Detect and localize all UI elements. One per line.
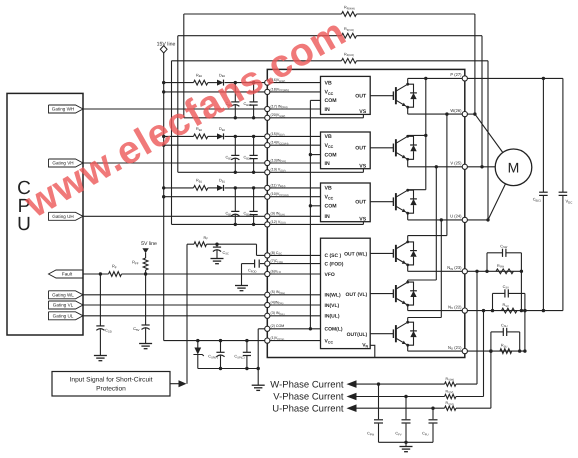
wire P rail to DC link (465, 77, 563, 79)
wire Q3 emitter to U row (407, 213, 409, 220)
wire rail1 right vertical to W node (474, 14, 476, 114)
wire collector bus vertical (425, 78, 427, 189)
pin N right (462, 349, 467, 354)
diode DB3 (217, 80, 224, 86)
wire rail2 left vertical (177, 36, 179, 173)
svg-text:IN(UL): IN(UL) (325, 314, 340, 320)
wire U sense vertical (490, 351, 492, 408)
wire Q4 collector rail to W node (407, 236, 409, 242)
wire U-Phase Current line (356, 407, 445, 409)
svg-text:C (SC ): C (SC ) (325, 253, 342, 259)
svg-text:Gating UL: Gating UL (53, 314, 74, 319)
junction CFV tap (404, 395, 407, 398)
capacitor CFU (432, 408, 434, 419)
wire V sense vertical (483, 311, 485, 397)
svg-text:NW (23): NW (23) (447, 265, 462, 271)
wire 15V to Vcc row 3 (164, 91, 265, 93)
pin (4)IN(VL) (265, 302, 270, 307)
svg-text:VS: VS (359, 109, 366, 115)
pin (2) COM (265, 326, 270, 331)
svg-text:U: U (17, 214, 31, 235)
resistor RF(UH) (342, 58, 357, 63)
wire shunt V to NU rail (524, 311, 526, 352)
junction 5V pull-up to fault line (144, 272, 147, 275)
wire VS stub V (362, 169, 364, 173)
capacitor CFV (405, 397, 407, 420)
svg-text:COM: COM (325, 204, 337, 210)
node Gating UH (49, 212, 84, 220)
svg-text:OUT(UL): OUT(UL) (347, 332, 368, 338)
wire V node to motor (465, 166, 495, 168)
pin N right (462, 269, 467, 274)
wire pin stub (267, 315, 320, 317)
capacitor C5V (142, 324, 150, 326)
resistor RSU (500, 349, 512, 354)
wire pin stub (267, 82, 320, 84)
wire input arrow to SC vertical (170, 383, 179, 385)
node Gating WL (49, 291, 84, 299)
junction CSC (215, 243, 218, 246)
wire pin stub (267, 91, 320, 93)
wire gate drive to Q3 (370, 201, 393, 203)
resistor RV(U) (445, 406, 457, 410)
transistor Q6 (IGBT) (392, 329, 394, 338)
diode DQ1 (freewheel) (408, 84, 414, 93)
svg-text:IN: IN (325, 214, 330, 220)
wire pin stub (267, 294, 320, 296)
wire shunt W to NV rail (520, 271, 522, 310)
wire rail2 right vertical to V node (481, 36, 483, 167)
wire Gating VH to IN(VH) pin (13) (83, 162, 265, 164)
capacitor CSW (487, 252, 503, 254)
junction U node VS (486, 218, 489, 221)
wire SC-input vertical (186, 244, 188, 384)
wire gate drive to Q2 (370, 147, 393, 149)
wire Q5 emitter to NV row (407, 305, 409, 311)
svg-text:IN(VL): IN(VL) (325, 303, 340, 309)
svg-text:VB: VB (325, 134, 332, 140)
svg-text:VS: VS (359, 163, 366, 169)
wire VS(U) row pin (12) (172, 223, 265, 225)
wire VS stub U (362, 222, 364, 225)
wire Gating WL to IN(WL) pin (5) (83, 294, 265, 296)
wire filter cap bottom rail (379, 441, 434, 443)
svg-text:IN: IN (325, 161, 330, 167)
pin (11) VB(U) (265, 185, 270, 190)
wire RB2 to DB2 (208, 135, 217, 137)
svg-text:IN: IN (325, 107, 330, 113)
junction W node VS (473, 112, 476, 115)
node Gating VL (49, 301, 84, 309)
resistor RB3 (194, 80, 208, 85)
svg-text:NV (22): NV (22) (448, 304, 462, 310)
resistor RF (fault series) (109, 272, 122, 277)
wire Q2 collector to bus (407, 134, 409, 137)
diode DQ4 (freewheel) (408, 242, 414, 251)
wire Q3 collector to bus (407, 189, 409, 192)
svg-text:M: M (508, 159, 520, 175)
wire 15V to Vcc(L) pin (1) (164, 340, 265, 342)
capacitor CFW (378, 384, 380, 419)
svg-text:Fault: Fault (62, 272, 73, 277)
wire Fault line (83, 273, 109, 275)
wire shunt loop SU (490, 332, 492, 351)
wire gate drive to Q6 (370, 333, 393, 335)
svg-text:NU (21): NU (21) (448, 345, 462, 351)
capacitor CB1C (bootstrap ceramic) (253, 188, 255, 212)
wire P rail inside module (408, 77, 465, 79)
junction CBC to NV rail (542, 309, 545, 312)
svg-text:IN(WL): IN(WL) (325, 293, 341, 299)
wire diode to pin VB 2 (225, 135, 265, 137)
wire Q1 collector to P rail (407, 78, 409, 84)
wire U1 COM stub (310, 99, 320, 101)
IPM module outline (267, 69, 465, 357)
wire Q1 emitter to W row (407, 107, 409, 114)
wire Gating WH to IN(WH) pin (17) (83, 108, 265, 110)
pin (9) IN(UH) (265, 214, 270, 219)
wire gate drive to Q4 (370, 252, 393, 254)
junction fault filter cap (99, 272, 102, 275)
wire pin stub (267, 215, 320, 217)
svg-text:VB: VB (325, 80, 332, 86)
wire gate drive to Q5 (370, 293, 393, 295)
wire NU row (408, 350, 465, 352)
transistor Q5 (IGBT) (392, 289, 394, 298)
resistor RSW (496, 269, 513, 274)
diode DQ5 (freewheel) (408, 282, 414, 291)
junction CFU tap (431, 407, 434, 410)
wire Q4 emitter to NW row (407, 265, 409, 271)
wire VN stub (370, 345, 375, 357)
wire Gating UH to IN(UH) pin (9) (83, 215, 265, 217)
wire shunt loop SW (486, 253, 488, 271)
svg-text:Protection: Protection (96, 386, 126, 393)
wire pin stub (267, 196, 320, 198)
wire RB1 to DB1 (208, 187, 217, 189)
ground below CSC (211, 258, 224, 260)
svg-text:15V line: 15V line (157, 42, 176, 48)
wire 15V to VB row 1 (164, 187, 194, 189)
junction NU sense tap (489, 349, 492, 352)
wire pin stub (267, 340, 320, 342)
wire RSC to pin (8) (256, 244, 258, 255)
wire Q2 emitter to V row (407, 159, 409, 167)
wire Q6 emitter to NU row (407, 345, 409, 351)
junction NW sense tap (475, 270, 478, 273)
wire Q6 collector rail to U node (407, 318, 409, 323)
Input Signal for Short-Circuit Protection box (52, 372, 170, 397)
svg-text:COM(L): COM(L) (325, 327, 343, 333)
diode DB1 (217, 185, 224, 191)
wire 15V to Vcc row 2 (164, 144, 265, 146)
wire W row (408, 113, 465, 115)
transistor Q2 (IGBT) (392, 144, 394, 153)
svg-text:Input Signal for Short-Circuit: Input Signal for Short-Circuit (70, 377, 153, 384)
wire W-Phase Current line (356, 383, 445, 385)
node Gating VH (49, 159, 84, 167)
svg-text:VFO: VFO (325, 272, 335, 278)
wire CFOD to ground (241, 264, 243, 286)
svg-text:(2) COM: (2) COM (271, 324, 285, 328)
svg-text:U (24): U (24) (450, 214, 462, 219)
wire V-Phase Current line (356, 396, 445, 398)
diode DQ3 (freewheel) (408, 190, 414, 199)
svg-text:COM: COM (325, 152, 337, 158)
wire 15V to Vcc row 1 (164, 196, 265, 198)
op-amp U1 high-side driver W (HVIC) (321, 76, 371, 114)
CPU box (7, 93, 83, 335)
resistor RSV (502, 308, 517, 313)
wire clamp bottom rail (198, 368, 258, 370)
capacitor CB2C (bootstrap ceramic) (253, 136, 255, 155)
capacitor CSP(F) (220, 341, 222, 353)
pin (15)VB(V) (265, 134, 270, 139)
svg-text:OUT (VL): OUT (VL) (346, 292, 368, 298)
node Fault (49, 270, 84, 278)
wire 15V to VB row 3 (164, 82, 194, 84)
transistor Q4 (IGBT) (392, 249, 394, 258)
ground below CFOD (235, 285, 248, 287)
pin (1)VCC(L) (265, 338, 270, 343)
low-side driver box LVIC (321, 238, 371, 348)
wire COM bus vertical (309, 100, 311, 328)
diode DQ6 (freewheel) (408, 322, 414, 331)
svg-text:W-Phase Current: W-Phase Current (270, 379, 344, 390)
wire pin stub (267, 108, 320, 110)
wire U node to motor (465, 219, 488, 221)
pin P (27) right (462, 76, 467, 81)
wire W sense vertical (476, 271, 478, 384)
wire diode to pin VB 3 (225, 82, 265, 84)
wire U3 COM stub (310, 205, 320, 207)
pin W(26) right (462, 112, 467, 117)
wire COM pin (2) to ground (258, 328, 265, 330)
svg-text:VS: VS (359, 216, 366, 222)
wire pin stub (267, 187, 320, 189)
resistor RB2 (194, 134, 208, 139)
capacitor CSU (491, 331, 503, 333)
svg-text:V (25): V (25) (450, 161, 462, 166)
ground below CGD (94, 355, 107, 357)
capacitor CB1 (bootstrap) (234, 188, 236, 212)
wire U2 COM stub (310, 154, 320, 156)
wire rail1 left vertical (183, 14, 185, 118)
wire shunt loop SV (492, 293, 494, 310)
wire RSC row (187, 243, 194, 245)
capacitor CGD (96, 325, 104, 327)
wire pin stub (267, 144, 320, 146)
wire pin stub (267, 162, 320, 164)
svg-text:C (FOD): C (FOD) (325, 261, 344, 267)
source VDC vertical (562, 78, 564, 192)
svg-text:COM: COM (325, 98, 337, 104)
capacitor CB2 (bootstrap) (234, 136, 236, 155)
wire VS(W) top rail (184, 13, 342, 15)
pin (10)VCC(UH) (265, 194, 270, 199)
capacitor CB3 (bootstrap) (234, 83, 236, 102)
pin (5) IN(WL) (265, 292, 270, 297)
pin (20)VS(W) (265, 115, 270, 120)
capacitor CFOD (260, 263, 265, 265)
capacitor CSV (493, 292, 505, 294)
wire NV row exterior to DC minus (465, 310, 563, 312)
svg-text:OUT (WL): OUT (WL) (344, 252, 367, 258)
resistor RF(WH) (342, 12, 357, 17)
svg-text:Gating WH: Gating WH (52, 107, 74, 112)
resistor RV(V) (445, 394, 457, 398)
wire rail3 right vertical to U node (487, 61, 489, 220)
pin (12) VS(U) (265, 222, 270, 227)
junction CBC on P rail (542, 77, 545, 80)
transistor Q1 (IGBT) (392, 91, 394, 100)
pin V (25) right (462, 164, 467, 169)
ground below C5V (139, 343, 152, 345)
capacitor CB3C (bootstrap ceramic) (253, 83, 255, 102)
wire gate drive to Q1 (370, 95, 393, 97)
svg-text:U-Phase Current: U-Phase Current (272, 403, 344, 414)
resistor RSC (194, 242, 207, 247)
wire U row (408, 219, 465, 221)
resistor RF(VH) (342, 33, 357, 38)
svg-text:OUT: OUT (355, 146, 367, 152)
wire fault to CGD (99, 274, 101, 326)
capacitor CSP(C) (246, 341, 248, 353)
wire pin stub (267, 263, 320, 265)
junction CFW tap (377, 382, 380, 385)
wire 15V to VB row 2 (164, 135, 194, 137)
pin (13)IN(VH) (265, 160, 270, 165)
wire VS(V) row pin (19) (178, 171, 265, 173)
svg-text:V-Phase Current: V-Phase Current (273, 392, 344, 403)
motor M (495, 149, 532, 186)
transistor Q3 (IGBT) (392, 197, 394, 206)
junction NV sense tap (482, 309, 485, 312)
wire VS(V) top rail (178, 35, 342, 37)
pin (7)CFOD (265, 261, 270, 266)
pin (19) VS(V) (265, 170, 270, 175)
wire pin stub (267, 273, 320, 275)
wire pin stub (267, 135, 320, 137)
svg-text:P (27): P (27) (450, 72, 462, 77)
wire Gating VL to IN(VL) pin (4) (83, 304, 265, 306)
pin (8) CSC (265, 253, 270, 258)
ground below filter caps (405, 442, 407, 446)
pin N right (462, 308, 467, 313)
wire rail3 left vertical (171, 61, 173, 225)
capacitor CBC vertical (542, 78, 544, 192)
wire pin stub (267, 328, 320, 330)
resistor RV(W) (445, 382, 457, 386)
wire pin stub (267, 254, 320, 256)
wire VS(U) top rail (172, 60, 342, 62)
pin (16)VB(W) (265, 80, 270, 85)
svg-text:OUT: OUT (355, 200, 367, 206)
wire pin stub (267, 304, 320, 306)
wire 5V vertical (145, 253, 147, 258)
op-amp U2 high-side driver V (HVIC) (321, 132, 371, 169)
wire Q5 collector rail to V node (407, 280, 409, 282)
diode DQ2 (freewheel) (408, 136, 414, 145)
node Gating WH (49, 105, 84, 113)
ground below clamp rail (252, 384, 265, 386)
wire NU row exterior (465, 350, 525, 352)
wire RB3 to DB3 (208, 82, 217, 84)
pin (3) IN(UL) (265, 313, 270, 318)
svg-text:W(26): W(26) (450, 108, 462, 113)
wire VS stub W (362, 114, 364, 117)
svg-text:VB: VB (325, 186, 332, 192)
op-amp U3 high-side driver U (HVIC) (321, 183, 371, 222)
junction COM bus to COM(L) row (309, 327, 312, 330)
pin (18)VCC(WH) (265, 89, 270, 94)
wire Gating UL to IN(UL) pin (3) (83, 315, 265, 317)
wire V row (408, 166, 465, 168)
svg-text:Gating VL: Gating VL (53, 303, 74, 308)
pin (17) IN(WH) (265, 106, 270, 111)
wire 15V vertical rail (163, 53, 165, 341)
wire VS(W) row pin (20) (184, 117, 265, 119)
wire W node to motor (465, 113, 475, 115)
diode DB2 (217, 133, 224, 139)
junction V node VS (480, 165, 483, 168)
pin (6)VFO (265, 271, 270, 276)
resistor RB1 (194, 186, 208, 191)
resistor RFF (fault pull-up) (143, 258, 148, 270)
node Gating UL (49, 312, 84, 320)
wire NW row exterior (465, 270, 522, 272)
zener diode DZ (197, 341, 199, 348)
pin (14)VCC(VH) (265, 143, 270, 148)
wire NW row (408, 270, 465, 272)
pin U (24) right (462, 217, 467, 222)
svg-text:Gating WL: Gating WL (52, 293, 74, 298)
wire diode to pin VB 1 (225, 187, 265, 189)
svg-text:OUT: OUT (355, 94, 367, 100)
wire NV row (408, 310, 465, 312)
wire fault node down to C5V (145, 274, 147, 325)
capacitor CSC (216, 244, 218, 247)
svg-text:5V line: 5V line (141, 241, 157, 247)
